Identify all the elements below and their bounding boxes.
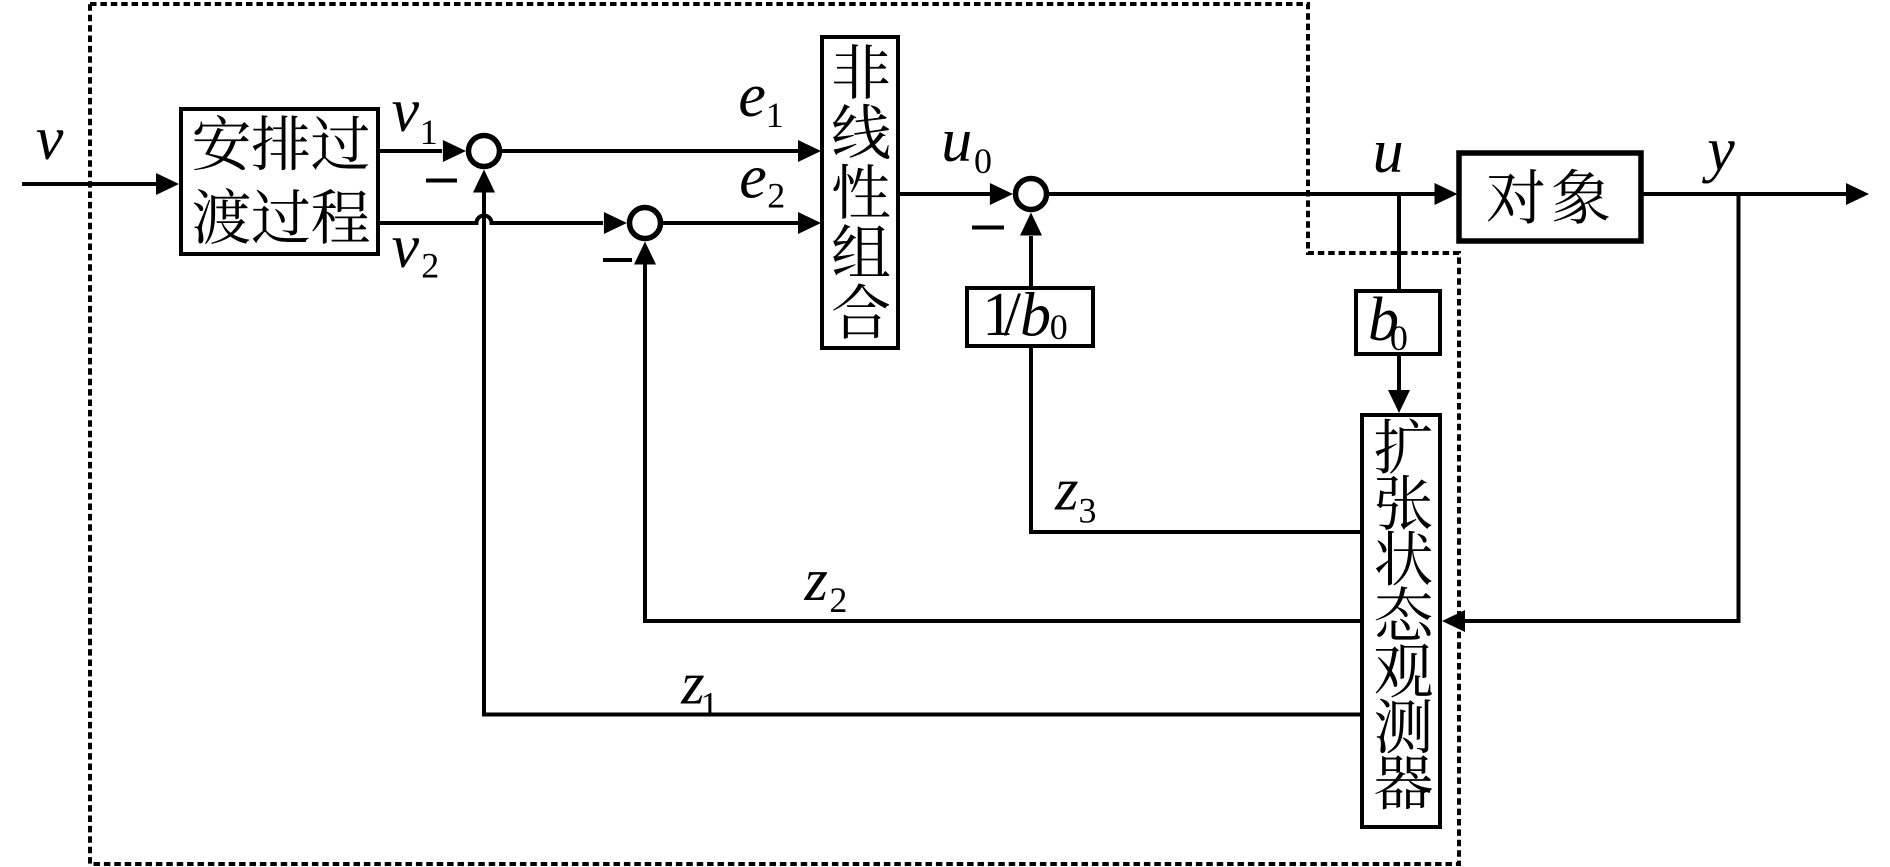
arrowhead e2 into NL box <box>798 212 821 234</box>
wire: v2 TD box to sum2 with hop over z1 line <box>378 216 603 223</box>
svg-text:0: 0 <box>1050 307 1068 347</box>
summing junction sum2 <box>630 208 661 239</box>
svg-text:b: b <box>1020 282 1051 350</box>
wire: y output <box>1641 192 1846 196</box>
arrowhead into ESO top <box>1388 390 1410 413</box>
svg-text:1: 1 <box>700 685 718 725</box>
arrowhead u0 into sum3 <box>990 183 1013 205</box>
svg-text:2: 2 <box>767 176 785 216</box>
svg-text:z: z <box>1054 457 1078 523</box>
svg-text:3: 3 <box>1079 491 1097 531</box>
TD text row1 (an pai guo) <box>194 115 249 170</box>
arrowhead y output <box>1846 183 1869 205</box>
svg-text:2: 2 <box>421 246 439 286</box>
wire: 1/b0 up to sum3 <box>1029 236 1033 288</box>
wire: e1 sum1 to NL box <box>502 149 798 153</box>
svg-text:e: e <box>739 144 767 212</box>
svg-text:u: u <box>1373 118 1404 186</box>
arrowhead v1 into sum1 <box>443 140 466 162</box>
dashed controller boundary <box>90 4 1459 864</box>
NL text (fei xian xing zu he) <box>834 44 889 99</box>
wire: u0 NL box to sum3 <box>898 192 990 196</box>
svg-text:2: 2 <box>829 580 847 620</box>
summing junction sum1 <box>469 136 500 167</box>
arrowhead u into plant <box>1435 183 1458 205</box>
arrowhead v2 into sum2 <box>604 212 627 234</box>
TD text row2 (du guo cheng) <box>194 188 250 244</box>
svg-text:0: 0 <box>1390 318 1408 358</box>
svg-text:y: y <box>1701 116 1735 184</box>
wire: e2 sum2 to NL box <box>663 221 798 225</box>
arrowhead z2 into sum2 bottom <box>634 242 656 265</box>
plant text <box>1488 169 1544 224</box>
svg-text:v: v <box>392 77 420 145</box>
summing junction sum3 <box>1016 179 1047 210</box>
arrowhead z1 into sum1 bottom <box>473 170 495 193</box>
block: extended state observer (ESO) <box>1362 415 1440 827</box>
wire: v1 TD box to sum1 <box>378 149 442 153</box>
wire: z1 ESO to sum1 <box>484 193 1362 715</box>
block: b0 gain <box>1356 291 1440 354</box>
arrowhead v into TD box <box>156 173 179 195</box>
wire: b0 down to ESO <box>1397 354 1401 390</box>
block: plant (dui xiang) <box>1459 153 1641 241</box>
svg-text:e: e <box>738 62 766 130</box>
ESO text (kuo zhang zhuang tai guan ce qi) <box>1375 418 1431 473</box>
minus sign at sum2 <box>603 258 632 262</box>
wire: y branch down and left to ESO <box>1465 194 1739 621</box>
svg-text:v: v <box>392 213 420 281</box>
arrowhead z3 into sum3 bottom <box>1020 213 1042 236</box>
svg-text:z: z <box>804 547 828 613</box>
svg-text:u: u <box>941 107 972 175</box>
arrowhead e1 into NL box <box>798 140 821 162</box>
wire: z2 ESO to sum2 <box>645 265 1362 622</box>
minus sign at sum1 <box>426 179 457 183</box>
svg-text:1: 1 <box>420 112 438 152</box>
svg-text:1: 1 <box>766 95 784 135</box>
minus sign at sum3 <box>972 226 1004 230</box>
wire: input v <box>22 182 156 186</box>
svg-text:0: 0 <box>974 141 992 181</box>
block: nonlinear combination (NL) <box>822 37 898 348</box>
wire: u sum3 to plant <box>1049 192 1436 196</box>
block: arrange transition process (TD) <box>181 109 378 254</box>
wire: u branch down to b0 <box>1397 194 1401 291</box>
block: 1/b0 gain <box>967 288 1093 346</box>
arrowhead y into ESO right <box>1442 610 1465 632</box>
wire: z3 ESO to 1/b0 <box>1031 348 1362 532</box>
svg-text:v: v <box>36 105 64 173</box>
